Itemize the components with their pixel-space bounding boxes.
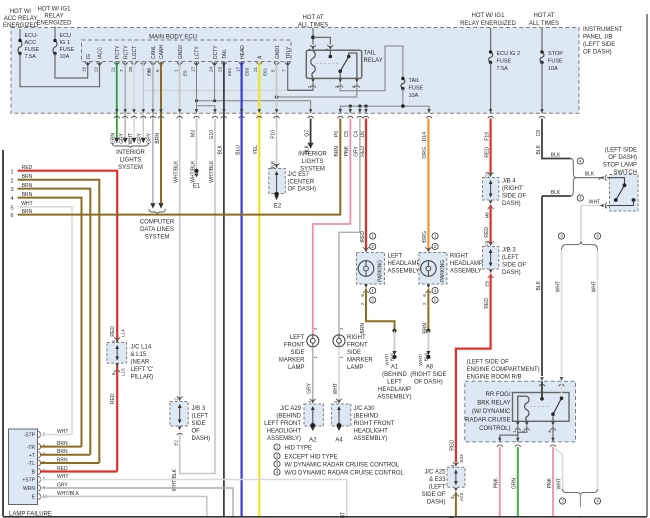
svg-text:E33: E33 bbox=[459, 454, 464, 463]
ECU pin GND0 bbox=[177, 62, 182, 64]
svg-text:J/C A29: J/C A29 bbox=[280, 406, 302, 412]
svg-text:RED: RED bbox=[360, 231, 366, 242]
svg-text:RED: RED bbox=[110, 393, 116, 404]
wire A YEL bbox=[258, 62, 260, 517]
svg-text:HID TYPE: HID TYPE bbox=[285, 446, 313, 452]
svg-text:1: 1 bbox=[605, 204, 608, 209]
computer data brace bbox=[149, 209, 166, 215]
svg-text:HEADLAMP: HEADLAMP bbox=[450, 261, 483, 267]
svg-text:SYSTEM: SYSTEM bbox=[118, 165, 143, 171]
wire M3 WHT/BLK to E1 bbox=[196, 119, 198, 171]
connector P6 bbox=[339, 109, 343, 113]
svg-text:J/B 3: J/B 3 bbox=[192, 406, 206, 412]
wire tail relay pin2 to TRLY bbox=[288, 83, 313, 91]
svg-text:SIDE: SIDE bbox=[192, 421, 206, 427]
svg-text:A8: A8 bbox=[426, 365, 434, 371]
wire CANH BRN bbox=[160, 62, 162, 203]
svg-text:FUSE: FUSE bbox=[497, 59, 512, 65]
svg-text:J/B 4: J/B 4 bbox=[502, 179, 516, 185]
svg-text:BRK RELAY: BRK RELAY bbox=[477, 401, 510, 407]
svg-text:E9: E9 bbox=[183, 70, 188, 76]
svg-text:LEFT FRONT: LEFT FRONT bbox=[264, 421, 301, 427]
connector GRY bbox=[123, 109, 127, 113]
svg-text:3: 3 bbox=[561, 499, 564, 504]
svg-text:CONTROL): CONTROL) bbox=[479, 426, 510, 432]
svg-text:PNK: PNK bbox=[547, 477, 553, 488]
svg-text:RED: RED bbox=[450, 440, 456, 451]
svg-text:RIGHT: RIGHT bbox=[347, 335, 366, 341]
svg-text:(BEHIND: (BEHIND bbox=[276, 414, 301, 420]
svg-text:(LEFT SIDE OF: (LEFT SIDE OF bbox=[467, 360, 510, 366]
svg-text:3: 3 bbox=[10, 187, 13, 193]
svg-text:ASSEMBLY): ASSEMBLY) bbox=[267, 436, 301, 442]
svg-text:21: 21 bbox=[111, 66, 116, 72]
svg-text:-STP: -STP bbox=[24, 433, 36, 439]
svg-text:3: 3 bbox=[579, 196, 582, 201]
svg-text:LEFT: LEFT bbox=[388, 254, 403, 260]
svg-text:STOP LAMP: STOP LAMP bbox=[603, 163, 637, 169]
svg-text:CANL: CANL bbox=[151, 45, 157, 59]
stop lamp switch BLK feed bbox=[542, 119, 571, 159]
tail relay coil bbox=[311, 51, 316, 78]
svg-text:LGCT: LGCT bbox=[132, 46, 138, 59]
svg-text:M3: M3 bbox=[190, 130, 196, 137]
svg-text:HEADLIGHT: HEADLIGHT bbox=[354, 429, 389, 435]
svg-text:TAIL: TAIL bbox=[364, 51, 377, 57]
svg-text:J/C A30: J/C A30 bbox=[354, 406, 376, 412]
ECU pin PCTY bbox=[114, 62, 119, 64]
svg-text:F10: F10 bbox=[270, 130, 276, 139]
svg-text:E2: E2 bbox=[274, 204, 282, 210]
svg-text:ASSEMBLY): ASSEMBLY) bbox=[354, 436, 388, 442]
svg-text:RELAY: RELAY bbox=[44, 14, 63, 20]
svg-text:15: 15 bbox=[82, 66, 87, 72]
svg-text:(BEHIND: (BEHIND bbox=[354, 414, 379, 420]
svg-text:GRY: GRY bbox=[354, 145, 360, 156]
svg-text:(LEFT: (LEFT bbox=[502, 255, 519, 261]
svg-text:FUSE: FUSE bbox=[60, 47, 75, 53]
svg-text:WHT: WHT bbox=[555, 281, 561, 292]
svg-text:OF DASH): OF DASH) bbox=[414, 380, 443, 386]
svg-text:DASH): DASH) bbox=[192, 436, 211, 442]
svg-text:RED: RED bbox=[484, 227, 490, 238]
wire TAIL BLK bbox=[223, 62, 225, 517]
tail relay contacts bbox=[329, 51, 331, 57]
svg-text:E1: E1 bbox=[193, 184, 201, 190]
svg-text:6: 6 bbox=[10, 213, 13, 219]
connector YEL bbox=[258, 109, 262, 113]
svg-text:RCTY: RCTY bbox=[123, 45, 129, 59]
svg-text:HEADLAMP: HEADLAMP bbox=[388, 261, 421, 267]
svg-text:L15: L15 bbox=[121, 368, 126, 376]
svg-text:J/B 3: J/B 3 bbox=[502, 248, 516, 254]
svg-text:(LEFT SIDE: (LEFT SIDE bbox=[583, 42, 615, 48]
svg-text:G10: G10 bbox=[209, 130, 215, 140]
wire GND1 WHT/BLK to J/C E57 bbox=[276, 62, 278, 169]
tail relay TR1 bbox=[306, 50, 361, 78]
svg-text:SWITCH: SWITCH bbox=[613, 170, 637, 176]
svg-text:FRONT: FRONT bbox=[347, 343, 368, 349]
svg-text:TAIL: TAIL bbox=[409, 78, 420, 84]
RR FOG BRK relay box bbox=[513, 393, 570, 422]
svg-text:(LEFT: (LEFT bbox=[429, 485, 446, 491]
svg-text:C4: C4 bbox=[354, 131, 360, 138]
svg-text:BLK: BLK bbox=[585, 172, 595, 178]
svg-text:BLK: BLK bbox=[551, 153, 561, 159]
connector BLK bbox=[222, 109, 226, 113]
wire right marker WHT down bbox=[338, 347, 340, 401]
ECU pin DCTY bbox=[212, 62, 217, 64]
svg-text:SYSTEM: SYSTEM bbox=[145, 235, 170, 241]
fuse STOP 10A bbox=[541, 28, 543, 52]
svg-text:C9: C9 bbox=[484, 172, 489, 178]
svg-text:5: 5 bbox=[10, 205, 13, 211]
ECU pin LGCT bbox=[131, 62, 136, 64]
svg-text:LAMP: LAMP bbox=[347, 365, 363, 371]
svg-text:GRN: GRN bbox=[512, 478, 518, 490]
ECU pin LCTY bbox=[194, 62, 199, 64]
wire tail relay pin4 to GND1 bbox=[277, 83, 357, 97]
svg-text:LIGHTS: LIGHTS bbox=[120, 158, 142, 164]
ECU pin E60 bbox=[141, 62, 146, 64]
svg-text:J/C L14: J/C L14 bbox=[131, 345, 152, 351]
engine room R/B box bbox=[465, 381, 576, 442]
ECU pin GND1 bbox=[274, 62, 279, 64]
wire RED to engine compartment bbox=[456, 274, 491, 463]
svg-text:C5: C5 bbox=[344, 131, 350, 138]
ECU pin IG bbox=[85, 62, 90, 64]
wire D14 ORG to right headlamp bbox=[427, 119, 429, 252]
svg-text:WRN: WRN bbox=[23, 486, 35, 492]
svg-text:PILLAR): PILLAR) bbox=[131, 375, 154, 381]
svg-text:RELAY: RELAY bbox=[364, 58, 383, 64]
svg-text:LEFT: LEFT bbox=[387, 380, 402, 386]
svg-text:WHT: WHT bbox=[128, 133, 134, 144]
fuse ECU IG2 7.5A bbox=[490, 28, 492, 52]
svg-text:17: 17 bbox=[190, 66, 195, 72]
ground A8 bbox=[426, 329, 430, 333]
svg-text:BLK: BLK bbox=[423, 352, 428, 362]
svg-text:INSTRUMENT: INSTRUMENT bbox=[583, 27, 623, 33]
wire E60 white to tail relay control line bbox=[143, 89, 287, 91]
brace bottom bbox=[563, 489, 598, 495]
svg-text:OF DASH): OF DASH) bbox=[583, 50, 612, 56]
wire LGCT WHT bbox=[133, 62, 135, 138]
svg-text:7.5A: 7.5A bbox=[497, 66, 509, 72]
svg-text:10A: 10A bbox=[60, 54, 70, 60]
svg-text:ENERGIZED: ENERGIZED bbox=[3, 23, 39, 29]
wire left headlamp BRN ground bbox=[366, 289, 395, 331]
svg-text:GRN: GRN bbox=[111, 133, 117, 145]
svg-text:ASSEMBLY: ASSEMBLY bbox=[388, 269, 420, 275]
connector WHT/BLK bbox=[178, 109, 182, 113]
svg-text:RELAY ENERGIZED: RELAY ENERGIZED bbox=[460, 21, 516, 27]
svg-text:F8: F8 bbox=[484, 240, 489, 246]
wire C4 GRY to right marker bbox=[339, 119, 360, 335]
svg-text:RR FOG/: RR FOG/ bbox=[486, 392, 511, 398]
wire PNK 3 bbox=[552, 447, 554, 517]
wire WHT variant3 down to relay bbox=[561, 250, 563, 376]
svg-text:FUSE: FUSE bbox=[25, 47, 40, 53]
svg-text:E61: E61 bbox=[227, 67, 232, 76]
svg-text:W/ DYNAMIC RADAR CRUISE CONTRO: W/ DYNAMIC RADAR CRUISE CONTROL bbox=[285, 463, 400, 469]
svg-text:WHT/BLK: WHT/BLK bbox=[174, 160, 180, 183]
ECU pin CANL bbox=[150, 62, 155, 64]
wire IG2 fuse to connector F19 bbox=[490, 63, 492, 114]
svg-text:25: 25 bbox=[128, 66, 133, 72]
svg-text:LEFT: LEFT bbox=[290, 335, 305, 341]
svg-text:PNK: PNK bbox=[344, 145, 350, 156]
svg-text:WHT: WHT bbox=[333, 383, 339, 394]
svg-text:HOT W/: HOT W/ bbox=[10, 9, 32, 15]
brace WHT split bbox=[558, 233, 564, 239]
tail fuse output bus bbox=[402, 89, 404, 107]
svg-text:-TR: -TR bbox=[27, 445, 36, 451]
ECU pin CANH bbox=[158, 62, 163, 64]
svg-text:24: 24 bbox=[208, 66, 213, 72]
connector CANL bbox=[151, 109, 155, 113]
svg-text:STOP: STOP bbox=[548, 51, 563, 57]
connector C5 bbox=[349, 109, 353, 113]
svg-text:HOT AT: HOT AT bbox=[533, 13, 554, 19]
RR FOG relay pin wires bbox=[500, 426, 518, 442]
wire C5 PNK to left marker bbox=[313, 119, 351, 335]
svg-text:1: 1 bbox=[434, 234, 437, 239]
svg-text:7: 7 bbox=[282, 69, 287, 72]
tail relay feed wire bbox=[312, 28, 314, 45]
instrument panel J/B box bbox=[11, 28, 579, 114]
svg-text:IG 1: IG 1 bbox=[60, 40, 70, 46]
svg-text:IG: IG bbox=[86, 54, 92, 59]
svg-text:BLU: BLU bbox=[235, 145, 241, 155]
svg-text:SIDE OF: SIDE OF bbox=[421, 492, 445, 498]
ground A1 bbox=[392, 329, 396, 333]
page borders bbox=[2, 150, 4, 517]
svg-text:ACC: ACC bbox=[25, 40, 37, 46]
right headlamp assembly bbox=[419, 253, 447, 285]
wire tail relay pin3 to tail fuse bbox=[340, 46, 403, 91]
svg-text:17: 17 bbox=[235, 66, 240, 72]
svg-text:RIGHT FRONT: RIGHT FRONT bbox=[354, 421, 395, 427]
svg-text:OF DASH): OF DASH) bbox=[288, 187, 317, 193]
wire to stop lamp switch pin 2 bbox=[576, 177, 603, 179]
svg-text:4: 4 bbox=[276, 470, 279, 475]
svg-text:2: 2 bbox=[434, 244, 437, 249]
svg-text:PARKING: PARKING bbox=[440, 260, 446, 282]
svg-text:6: 6 bbox=[422, 294, 427, 297]
svg-text:COMPUTER: COMPUTER bbox=[140, 220, 175, 226]
svg-text:HOT W/ IG1: HOT W/ IG1 bbox=[472, 13, 506, 19]
connector D14 bbox=[427, 109, 431, 113]
connector M3 bbox=[195, 109, 199, 113]
svg-text:(CENTER: (CENTER bbox=[288, 179, 315, 185]
wire CANL GRY bbox=[152, 62, 154, 203]
svg-text:GND1: GND1 bbox=[275, 45, 281, 59]
svg-text:WHT: WHT bbox=[556, 478, 562, 489]
svg-text:5: 5 bbox=[155, 69, 160, 72]
svg-text:6: 6 bbox=[360, 294, 365, 297]
wire IG1 fuse to IG pin bbox=[55, 54, 88, 79]
wire LCTY to M3 G10 staple bbox=[197, 62, 216, 113]
svg-text:TAIL: TAIL bbox=[222, 49, 228, 59]
svg-text:RED: RED bbox=[484, 298, 490, 309]
connector F10 bbox=[275, 109, 279, 113]
svg-text:MARKER: MARKER bbox=[347, 358, 373, 364]
svg-text:ENGINE COMPARTMENT): ENGINE COMPARTMENT) bbox=[467, 367, 540, 373]
connector Q7 bbox=[309, 109, 313, 113]
connector GRY bbox=[142, 109, 146, 113]
svg-text:HEADLIGHT: HEADLIGHT bbox=[267, 429, 302, 435]
svg-text:& L15: & L15 bbox=[131, 352, 147, 358]
svg-text:HEADLAMP: HEADLAMP bbox=[378, 387, 411, 393]
connector D6 bbox=[364, 109, 368, 113]
svg-text:INTERIOR: INTERIOR bbox=[298, 152, 327, 158]
svg-text:DASH): DASH) bbox=[502, 201, 521, 207]
svg-text:MARKER: MARKER bbox=[279, 358, 305, 364]
J/B 4 right side of dash bbox=[483, 178, 499, 201]
RR FOG relay contacts bbox=[541, 381, 543, 398]
svg-text:2: 2 bbox=[360, 302, 365, 305]
legend notes bbox=[274, 444, 280, 450]
svg-text:5: 5 bbox=[270, 69, 275, 72]
junction GND1 bbox=[275, 95, 279, 99]
ECU pin RCTY bbox=[123, 62, 128, 64]
connector BLU bbox=[240, 109, 244, 113]
svg-text:YEL: YEL bbox=[253, 145, 259, 155]
svg-text:INTERIOR: INTERIOR bbox=[116, 150, 145, 156]
wire Q7 BLK arrow bbox=[310, 119, 312, 144]
wire WHT variant4 from relay pin3 bbox=[555, 449, 563, 490]
svg-text:2: 2 bbox=[434, 298, 437, 303]
wire WHT variant4 down bbox=[597, 250, 599, 490]
svg-text:E61: E61 bbox=[262, 67, 267, 76]
svg-text:23: 23 bbox=[218, 66, 223, 72]
sensor wires right side bbox=[40, 434, 72, 436]
svg-text:A2: A2 bbox=[309, 438, 317, 444]
connector C4 bbox=[358, 109, 362, 113]
ECU pin IACC bbox=[97, 62, 102, 64]
svg-text:ALL TIMES: ALL TIMES bbox=[529, 21, 559, 27]
RED F19 wire with J/B4 and J/B3 bbox=[490, 119, 492, 175]
J/B 3 left side of dash right column bbox=[483, 247, 499, 270]
interior lights brace bbox=[112, 143, 149, 148]
svg-text:3: 3 bbox=[276, 462, 279, 467]
svg-text:SIDE: SIDE bbox=[290, 350, 304, 356]
svg-text:2: 2 bbox=[276, 454, 279, 459]
svg-text:DCTY: DCTY bbox=[213, 45, 219, 59]
svg-text:BRN: BRN bbox=[360, 323, 366, 334]
tail fuse 10A bbox=[401, 79, 405, 89]
svg-text:PARKING: PARKING bbox=[378, 260, 384, 282]
svg-text:22: 22 bbox=[93, 66, 98, 72]
svg-text:Q7: Q7 bbox=[304, 130, 310, 137]
wire E WHT/BLK bbox=[40, 497, 207, 518]
svg-text:SIDE: SIDE bbox=[347, 350, 361, 356]
svg-text:GRY: GRY bbox=[307, 382, 313, 393]
wire LCTY DCTY to Q7 bbox=[197, 101, 311, 113]
wire WRN GRY bbox=[40, 488, 233, 517]
svg-text:SIDE OF: SIDE OF bbox=[502, 194, 526, 200]
ECU pin HEAD bbox=[239, 62, 244, 64]
svg-text:3: 3 bbox=[560, 234, 563, 239]
svg-text:PCTY: PCTY bbox=[115, 45, 121, 59]
svg-text:A25: A25 bbox=[459, 492, 464, 501]
svg-text:BLK: BLK bbox=[390, 352, 395, 362]
svg-text:6: 6 bbox=[147, 69, 152, 72]
svg-text:DASH): DASH) bbox=[427, 500, 446, 506]
svg-text:DATA LINES: DATA LINES bbox=[140, 227, 174, 233]
wire GRN bbox=[517, 447, 519, 517]
svg-text:A1: A1 bbox=[391, 365, 399, 371]
svg-text:SIDE OF: SIDE OF bbox=[502, 263, 526, 269]
svg-text:HEAD: HEAD bbox=[240, 45, 246, 59]
svg-text:M6: M6 bbox=[484, 212, 489, 219]
svg-text:WHT/BLK: WHT/BLK bbox=[190, 160, 196, 183]
wire E60 GRY bbox=[142, 62, 144, 138]
svg-text:WHT/BLK: WHT/BLK bbox=[209, 160, 215, 183]
svg-text:BLK: BLK bbox=[536, 280, 542, 290]
svg-text:J/C E57: J/C E57 bbox=[288, 172, 310, 178]
svg-text:PNK: PNK bbox=[494, 477, 500, 488]
svg-text:& E33: & E33 bbox=[429, 477, 446, 483]
svg-text:IACC: IACC bbox=[98, 47, 104, 59]
svg-text:1: 1 bbox=[434, 288, 437, 293]
svg-text:BLK: BLK bbox=[304, 144, 310, 154]
RR FOG relay coil bbox=[518, 396, 527, 421]
svg-text:FRONT: FRONT bbox=[284, 343, 305, 349]
svg-text:OF DASH): OF DASH) bbox=[608, 155, 637, 161]
svg-text:GRY: GRY bbox=[147, 132, 153, 143]
fuse ECU-ACC 7.5A bbox=[19, 29, 21, 41]
wire DCTY bbox=[214, 62, 216, 101]
svg-text:1: 1 bbox=[276, 445, 279, 450]
svg-text:E2: E2 bbox=[174, 440, 179, 446]
svg-text:RIGHT: RIGHT bbox=[450, 254, 469, 260]
svg-text:LAMP: LAMP bbox=[288, 365, 304, 371]
svg-text:CANH: CANH bbox=[159, 44, 165, 59]
svg-text:4: 4 bbox=[596, 499, 599, 504]
ECU pin TRLY bbox=[285, 62, 290, 64]
svg-text:1: 1 bbox=[10, 169, 13, 175]
svg-text:BLK: BLK bbox=[218, 144, 224, 154]
svg-text:4: 4 bbox=[596, 234, 599, 239]
svg-text:ASSEMBLY: ASSEMBLY bbox=[450, 269, 482, 275]
wire BRN below J/C A25 bbox=[455, 492, 457, 517]
svg-text:(LEFT SIDE: (LEFT SIDE bbox=[605, 148, 637, 154]
wire right headlamp BRN ground bbox=[427, 289, 429, 331]
J/C L14 L15 bbox=[116, 366, 118, 472]
svg-text:BRN: BRN bbox=[155, 133, 161, 144]
lamp failure sensor bbox=[9, 429, 38, 505]
svg-text:LCTY: LCTY bbox=[195, 46, 201, 59]
svg-text:7: 7 bbox=[119, 69, 124, 72]
svg-text:(W/ DYNAMIC: (W/ DYNAMIC bbox=[472, 409, 511, 415]
svg-text:(BEHIND: (BEHIND bbox=[382, 372, 407, 378]
svg-text:LIGHTS: LIGHTS bbox=[302, 159, 324, 165]
svg-text:21: 21 bbox=[253, 66, 258, 72]
connector G10 bbox=[213, 109, 217, 113]
svg-text:-TL: -TL bbox=[28, 461, 36, 467]
svg-text:6: 6 bbox=[111, 372, 116, 375]
svg-text:PANEL J/B: PANEL J/B bbox=[583, 35, 612, 41]
svg-text:2: 2 bbox=[598, 176, 601, 181]
svg-text:2: 2 bbox=[371, 298, 374, 303]
svg-text:1: 1 bbox=[174, 69, 179, 72]
svg-text:4: 4 bbox=[579, 159, 582, 164]
svg-text:10A: 10A bbox=[409, 93, 419, 99]
svg-text:C8: C8 bbox=[536, 130, 542, 137]
wire ACC fuse to IACC pin bbox=[20, 54, 100, 87]
